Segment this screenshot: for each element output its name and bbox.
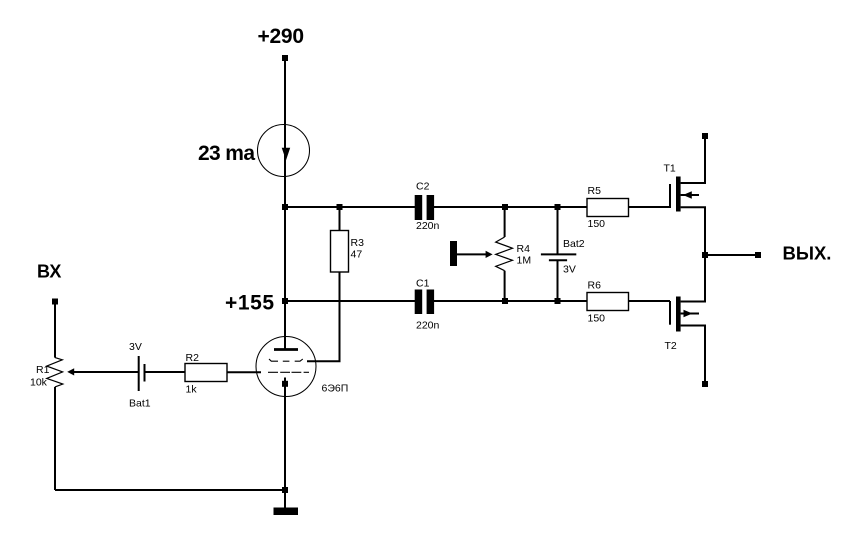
resistor R5 body xyxy=(587,199,629,217)
node dot input terminal xyxy=(52,299,58,305)
transistor T2 drain lead xyxy=(681,255,705,302)
svg-text:R6: R6 xyxy=(588,280,602,292)
transistor T1 gate line xyxy=(669,184,671,208)
capacitor C2 right plate xyxy=(427,195,435,220)
vacuum tube V1 cathode stub xyxy=(284,378,286,385)
wire cathode down to ground rail xyxy=(284,384,286,490)
node dot main/rail1 xyxy=(282,204,288,210)
potentiometer R4 wiper terminal bar xyxy=(450,241,457,266)
node dot ground junction xyxy=(282,487,288,493)
wire R4 bottom stem xyxy=(504,271,506,301)
wire rail1 middle segment xyxy=(434,206,587,208)
potentiometer R4 zigzag body xyxy=(496,237,513,271)
svg-text:6Э6П: 6Э6П xyxy=(322,383,349,395)
wire ground stem xyxy=(284,490,286,508)
svg-text:1k: 1k xyxy=(186,384,198,396)
svg-text:C2: C2 xyxy=(416,181,430,193)
node dot output junction xyxy=(702,252,708,258)
ground symbol bar xyxy=(274,508,299,516)
svg-text:C1: C1 xyxy=(416,278,430,290)
svg-text:150: 150 xyxy=(588,313,606,325)
transistor T2 substrate arrow head xyxy=(684,310,693,317)
capacitor C1 right plate xyxy=(427,290,435,315)
vacuum tube V1 anode plate bar xyxy=(274,348,298,351)
current source I1 circle xyxy=(258,125,310,177)
wire Bat1 to R2 xyxy=(145,371,186,373)
capacitor C1 left plate xyxy=(415,290,423,315)
node dot T1 drain terminal xyxy=(702,133,708,139)
node dot Bat2 bottom xyxy=(555,298,561,304)
svg-text:1M: 1M xyxy=(517,255,532,267)
capacitor C2 left plate xyxy=(415,195,423,220)
svg-text:23 ma: 23 ma xyxy=(198,142,255,165)
svg-text:Bat2: Bat2 xyxy=(563,238,585,250)
svg-text:T2: T2 xyxy=(665,340,677,352)
wire R2 to tube grid xyxy=(227,371,261,373)
wire R1 bottom stem xyxy=(54,387,56,490)
svg-text:150: 150 xyxy=(588,218,606,230)
svg-text:R4: R4 xyxy=(517,243,531,255)
node +290 terminal dot xyxy=(282,55,288,61)
svg-text:R1: R1 xyxy=(36,364,50,376)
transistor T2 source lead xyxy=(681,326,705,385)
svg-text:R3: R3 xyxy=(351,237,365,249)
battery Bat2 top stem wire xyxy=(557,207,559,254)
wire R3 top stem xyxy=(339,207,341,231)
resistor R2 body xyxy=(185,364,227,382)
svg-text:R2: R2 xyxy=(186,352,200,364)
potentiometer R1 zigzag body xyxy=(47,358,63,387)
wire rail1 left segment (y=207) xyxy=(285,206,415,208)
resistor R6 body xyxy=(587,293,629,311)
svg-text:R5: R5 xyxy=(588,185,602,197)
node dot Bat2 top xyxy=(555,204,561,210)
svg-text:220n: 220n xyxy=(416,220,440,232)
svg-text:ВХ: ВХ xyxy=(37,262,61,282)
svg-text:+155: +155 xyxy=(225,292,274,315)
battery Bat2 long plate xyxy=(541,253,576,255)
svg-text:Bat1: Bat1 xyxy=(129,398,151,410)
wire rail2 middle segment xyxy=(434,300,587,302)
vacuum tube V1 control grid dashes xyxy=(268,371,309,373)
battery Bat2 short plate xyxy=(549,259,567,261)
vacuum tube V1 cathode dot xyxy=(282,381,288,387)
wire output horizontal xyxy=(705,254,758,256)
transistor T2 substrate arrow line xyxy=(681,313,699,315)
node dot R3 top xyxy=(337,204,343,210)
battery Bat1 short plate xyxy=(144,364,146,382)
transistor T1 channel bar xyxy=(676,177,681,212)
wire main vertical from +290 through current source to tube plate xyxy=(284,58,286,349)
wire R3 bottom stem down to screen grid wire xyxy=(339,272,341,362)
wire rail1 right segment to T1 gate xyxy=(629,206,671,208)
vacuum tube V1 envelope circle xyxy=(256,337,316,397)
svg-text:220n: 220n xyxy=(416,320,440,332)
wire rail2 left segment (y=301) xyxy=(285,300,415,302)
node dot output terminal xyxy=(755,252,761,258)
battery Bat2 bottom stem wire xyxy=(557,260,559,301)
current source I1 arrow xyxy=(282,148,291,161)
svg-text:ВЫХ.: ВЫХ. xyxy=(783,243,832,264)
wire input stem down to R1 xyxy=(54,301,56,358)
svg-text:10k: 10k xyxy=(30,377,48,389)
potentiometer R1 wiper arrow head xyxy=(67,368,74,375)
svg-text:3V: 3V xyxy=(129,341,142,353)
wire tube screen grid horizontal xyxy=(307,360,341,362)
wire R4 top stem xyxy=(504,207,506,237)
transistor T2 channel bar xyxy=(676,297,681,332)
transistor T2 gate line xyxy=(669,301,671,325)
node dot R4 top xyxy=(502,204,508,210)
wire bottom horizontal xyxy=(55,489,285,491)
svg-text:3V: 3V xyxy=(563,264,576,276)
transistor T1 substrate arrow head xyxy=(683,191,692,198)
wire R1 wiper line to Bat1 xyxy=(74,371,139,373)
resistor R3 body xyxy=(331,231,349,273)
transistor T1 substrate arrow line xyxy=(681,194,699,196)
wire R4 wiper line xyxy=(457,253,487,255)
potentiometer R4 wiper arrow xyxy=(486,251,493,258)
node dot R4 bottom xyxy=(502,298,508,304)
svg-text:+290: +290 xyxy=(258,25,305,48)
node dot +155 xyxy=(282,298,288,304)
vacuum tube V1 screen grid dashes xyxy=(269,359,303,361)
transistor T1 source lead xyxy=(681,207,705,255)
battery Bat1 long plate xyxy=(138,356,140,391)
wire rail2 right segment to T2 gate xyxy=(629,300,671,302)
transistor T1 drain lead xyxy=(681,136,705,183)
node dot T2 source terminal xyxy=(702,381,708,387)
svg-text:47: 47 xyxy=(351,249,363,261)
svg-text:T1: T1 xyxy=(664,163,676,175)
